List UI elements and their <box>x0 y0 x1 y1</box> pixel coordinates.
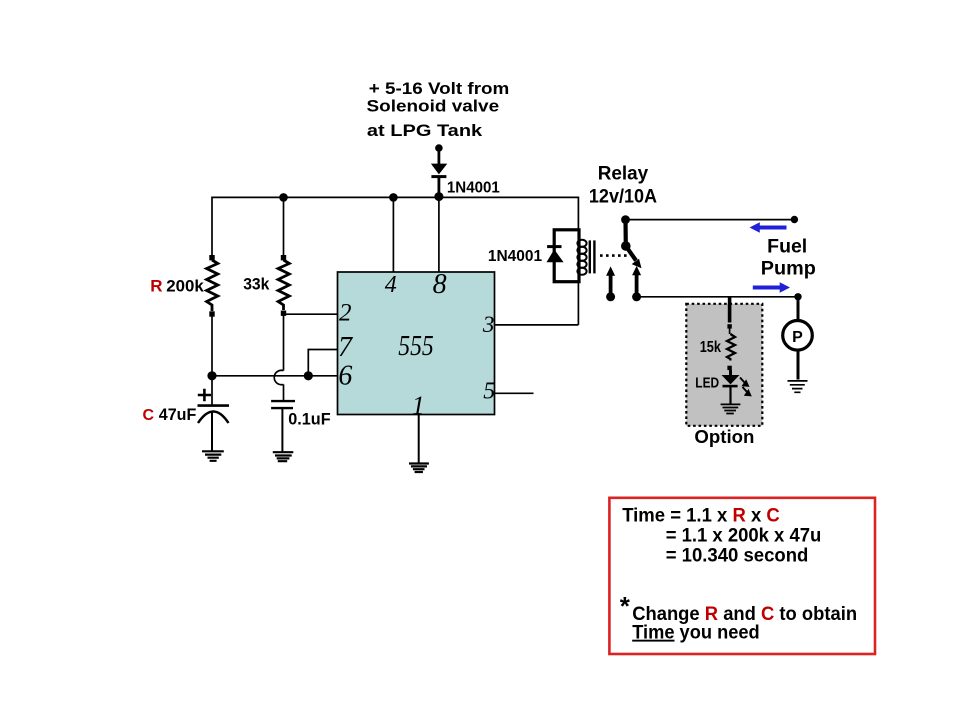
ground (C 47uF) <box>202 451 224 461</box>
diode D1 (1N4001 series) triangle <box>431 164 447 175</box>
LED cathode bar <box>723 385 738 388</box>
wire: pump drop <box>797 297 800 321</box>
svg-text:Relay: Relay <box>598 164 649 185</box>
relay NC contact dot <box>606 292 615 301</box>
svg-text:47uF: 47uF <box>159 406 197 424</box>
svg-text:R: R <box>150 276 162 295</box>
svg-text:33k: 33k <box>243 276 270 294</box>
relay coil loop 4 <box>577 261 586 268</box>
svg-text:Fuel: Fuel <box>767 237 807 258</box>
wire: pin 2 line from 33k bottom to 555 <box>284 313 338 315</box>
wire: common to fuel pump feed <box>626 219 795 221</box>
svg-text:Option: Option <box>694 427 754 447</box>
svg-text:4: 4 <box>385 272 397 298</box>
option box (dotted gray) <box>686 304 762 426</box>
wire: hop to 0.1uF top plate <box>283 384 285 401</box>
svg-text:0.1uF: 0.1uF <box>288 410 330 428</box>
capacitor C 47uF plus sign <box>198 389 211 401</box>
junction dot: pin7 branch <box>304 371 313 380</box>
wire: pump to ground <box>797 350 800 379</box>
wire: node to pin 6 <box>212 375 338 377</box>
capacitor C 47uF top plate <box>198 404 230 407</box>
wire: pin 4 to rail <box>392 197 394 272</box>
svg-text:15k: 15k <box>700 339 721 356</box>
svg-text:C: C <box>143 407 155 424</box>
capacitor C 47uF curved plate <box>198 412 229 424</box>
resistor R 200k zigzag <box>207 260 218 311</box>
svg-text:at LPG Tank: at LPG Tank <box>367 121 483 140</box>
relay NC contact arrowhead <box>606 266 615 275</box>
relay common terminal dot <box>621 215 630 224</box>
svg-text:LED: LED <box>695 375 719 391</box>
formula box (red border) <box>609 498 875 654</box>
relay core line 1 <box>589 240 591 273</box>
relay common link <box>623 220 627 246</box>
wire: feed dot to diode D1 anode <box>437 148 440 165</box>
wire: pin 8 to diode node <box>438 197 440 272</box>
resistor 15k zigzag <box>727 334 735 361</box>
capacitor 0.1uF bottom plate <box>271 407 293 409</box>
node dot: fuel pump feed end <box>791 216 798 223</box>
svg-text:= 10.340 second: = 10.340 second <box>666 546 809 567</box>
dotted actuator link <box>600 254 628 257</box>
wire: node down to C 47uF <box>211 376 213 406</box>
wire: top +V rail <box>212 197 578 258</box>
wire: R 200k bottom to junction node <box>211 316 213 376</box>
svg-text:6: 6 <box>338 360 352 391</box>
relay coil loop 1 <box>577 240 586 247</box>
diode D2 cathode bar <box>547 245 561 248</box>
resistor 33k zigzag <box>278 260 289 310</box>
pump motor circle P <box>783 321 813 351</box>
relay NO contact arrowhead <box>632 266 641 275</box>
relay coil frame <box>554 230 579 282</box>
node dot: pump top <box>794 293 801 300</box>
svg-text:+ 5-16 Volt from: + 5-16 Volt from <box>369 79 510 98</box>
svg-text:Time = 1.1 x R x C: Time = 1.1 x R x C <box>622 506 780 527</box>
wire: NO contact to pump <box>637 296 798 298</box>
svg-text:*: * <box>620 591 631 621</box>
diode D2 (flyback) triangle pointing up <box>547 249 564 262</box>
wire: 0.1uF to ground <box>281 408 283 452</box>
wire: coil bottom to pin-3 line <box>577 282 579 325</box>
wire: 15k to LED <box>729 370 732 375</box>
resistor R 200k terminal (top) <box>209 255 214 260</box>
relay armature arrowhead <box>632 259 642 269</box>
relay coil loop 3 <box>577 254 586 261</box>
resistor R 200k terminal (bottom) <box>209 311 214 316</box>
wire: rail down to 33k <box>283 197 285 256</box>
wire: pin 3 to relay coil <box>495 324 579 326</box>
ground (0.1uF) <box>273 452 294 461</box>
relay coil loop 2 <box>577 247 586 254</box>
blue arrow (current to pump) <box>753 282 790 293</box>
wire: diode D1 cathode to +V rail <box>437 177 440 198</box>
resistor 33k terminal (bottom) <box>281 311 286 316</box>
capacitor 0.1uF top plate <box>271 400 295 402</box>
svg-text:P: P <box>792 329 803 346</box>
relay armature <box>626 246 636 261</box>
diode D1 cathode bar <box>431 175 446 178</box>
wire hop: vertical over pin-6 wire <box>274 370 283 384</box>
svg-text:Solenoid valve: Solenoid valve <box>367 96 500 115</box>
svg-text:200k: 200k <box>166 276 204 295</box>
wire: option feed (thick) <box>728 297 732 323</box>
svg-text:7: 7 <box>338 332 353 363</box>
IC U1: 555 timer body <box>338 272 495 415</box>
relay core line 2 <box>593 240 595 273</box>
svg-text:12v/10A: 12v/10A <box>589 186 657 207</box>
LED triangle <box>722 375 740 384</box>
ground (LED) <box>721 404 741 413</box>
ground (pump) <box>788 381 808 392</box>
resistor 15k terminal (bottom) <box>727 366 731 370</box>
relay NO contact dot <box>632 292 641 301</box>
svg-text:Pump: Pump <box>761 259 816 280</box>
relay pivot dot <box>621 241 631 251</box>
resistor 33k terminal (top) <box>281 255 286 260</box>
svg-text:5: 5 <box>483 379 495 405</box>
svg-text:1N4001: 1N4001 <box>488 248 543 265</box>
wire: pin 7 L-branch <box>308 350 337 376</box>
junction dot: rail / pin 4 <box>389 193 398 202</box>
wire: to 15k <box>729 328 731 334</box>
wire: pin 5 stub <box>495 392 534 394</box>
wire: 33k bottom down to hop <box>283 315 285 371</box>
LED emission arrow 1 <box>740 378 748 386</box>
relay NO contact arrow shaft <box>635 274 639 295</box>
ground (pin 1) <box>409 464 429 473</box>
wire: LED to ground <box>729 386 731 403</box>
resistor 15k terminal (top) <box>727 324 731 328</box>
svg-text:3: 3 <box>482 312 495 337</box>
node: solenoid feed dot <box>435 144 443 152</box>
svg-text:2: 2 <box>339 300 352 327</box>
junction dot: rail / 33k <box>279 193 288 202</box>
svg-text:= 1.1 x 200k x 47u: = 1.1 x 200k x 47u <box>666 526 822 547</box>
relay NC contact arrow shaft <box>609 274 613 294</box>
svg-text:8: 8 <box>433 269 447 300</box>
relay coil loop 5 <box>577 268 586 275</box>
junction dot: rail / diode D1 <box>434 192 443 201</box>
LED emission arrow 2 <box>743 387 751 395</box>
junction dot: R/C node <box>207 371 216 380</box>
svg-text:1N4001: 1N4001 <box>447 180 500 197</box>
svg-text:Time you need: Time you need <box>632 623 760 644</box>
blue arrow (current from pump side) <box>750 222 787 233</box>
wire: pin 1 to ground <box>418 415 420 463</box>
svg-text:555: 555 <box>398 331 434 362</box>
wire: C 47uF to ground <box>211 413 213 452</box>
